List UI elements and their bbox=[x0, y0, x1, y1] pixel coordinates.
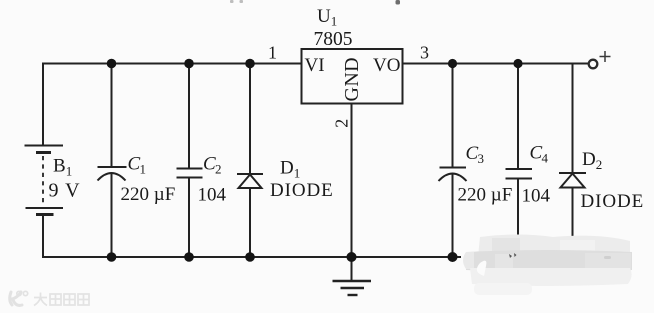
wire C2 branch bottom bbox=[188, 178, 190, 258]
wire top rail right (VO side) bbox=[403, 63, 589, 65]
junction: top rail / C2 bbox=[184, 59, 194, 69]
svg-text:VI: VI bbox=[305, 55, 325, 76]
junction: top rail / C3 bbox=[448, 59, 457, 68]
svg-text:DIODE: DIODE bbox=[581, 191, 645, 212]
wire C3 branch bottom bbox=[452, 174, 454, 257]
diode D1 bbox=[237, 174, 263, 188]
capacitor C1 (polarized) bbox=[98, 167, 127, 181]
ground symbol bbox=[333, 257, 372, 295]
svg-text:2: 2 bbox=[332, 119, 352, 128]
wire C2 branch top bbox=[188, 64, 190, 169]
svg-text:3: 3 bbox=[420, 43, 429, 63]
svg-text:9 V: 9 V bbox=[49, 180, 81, 202]
svg-text:1: 1 bbox=[268, 43, 277, 63]
wire D2 branch bottom bbox=[572, 188, 574, 243]
svg-text:VO: VO bbox=[373, 55, 400, 76]
svg-text:DIODE: DIODE bbox=[270, 180, 334, 201]
capacitor C4 bbox=[506, 169, 533, 179]
wire C1 branch top bbox=[111, 64, 113, 168]
wire GND pin 2 of U1 bbox=[351, 104, 353, 258]
junction: bottom rail / C2 bbox=[184, 252, 194, 262]
svg-text:4: 4 bbox=[542, 151, 549, 166]
svg-text:3: 3 bbox=[478, 151, 485, 166]
regulator U1 body (7805) bbox=[302, 49, 403, 104]
wire bottom ground rail bbox=[43, 214, 461, 257]
svg-text:220 µF: 220 µF bbox=[121, 184, 176, 205]
junction: top rail / C1 bbox=[107, 59, 117, 69]
junction: top rail / D1 bbox=[245, 59, 255, 69]
diode D2 bbox=[559, 173, 586, 188]
svg-text:104: 104 bbox=[198, 185, 227, 206]
svg-text:7805: 7805 bbox=[314, 29, 353, 50]
wire D2 branch top bbox=[572, 64, 574, 174]
junction: bottom rail / C3 bbox=[448, 252, 458, 262]
svg-text:220 µF: 220 µF bbox=[458, 185, 513, 206]
wire C1 branch bottom bbox=[111, 174, 113, 258]
capacitor C3 (polarized) bbox=[439, 168, 467, 182]
wire C4 branch bottom bbox=[517, 179, 519, 241]
junction: bottom rail / D1 bbox=[245, 252, 255, 262]
battery B1 bbox=[25, 146, 64, 215]
svg-text:GND: GND bbox=[341, 57, 363, 102]
svg-text:104: 104 bbox=[522, 186, 551, 207]
svg-text:2: 2 bbox=[215, 162, 222, 177]
capacitor C2 bbox=[177, 169, 203, 178]
junction: bottom rail / GND bbox=[347, 252, 357, 262]
wire C4 branch top bbox=[517, 64, 519, 170]
junction: bottom rail / C1 bbox=[107, 252, 117, 262]
wire top rail left (VI side) bbox=[43, 64, 302, 147]
junction: top rail / C4 bbox=[513, 59, 522, 68]
wire C3 branch top bbox=[452, 64, 454, 168]
output terminal (+) bbox=[589, 51, 611, 68]
wire D1 branch bottom bbox=[249, 188, 251, 257]
svg-text:1: 1 bbox=[140, 162, 147, 177]
wire D1 branch top bbox=[249, 64, 251, 175]
